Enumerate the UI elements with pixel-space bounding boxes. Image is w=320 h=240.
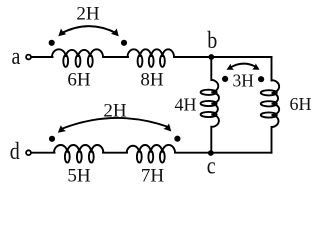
svg-text:6H: 6H — [67, 70, 91, 91]
svg-text:2H: 2H — [103, 101, 127, 122]
svg-text:6H: 6H — [290, 94, 312, 114]
inductor L2 8H (loops) — [138, 55, 165, 67]
terminal d (open circle) — [26, 150, 31, 155]
inductor L1 6H (humps) — [52, 49, 103, 57]
terminal a (open circle) — [26, 55, 31, 60]
wire right branch top — [271, 57, 273, 81]
dot marker L2 — [121, 40, 127, 46]
inductor L1 6H (loops) — [63, 55, 92, 67]
inductor L4 5H (humps) — [54, 145, 103, 153]
wire node b down — [210, 57, 212, 80]
arrowhead 2H bottom right — [163, 124, 171, 132]
svg-text:b: b — [207, 26, 217, 53]
inductor L3 4H vertical (loops) — [201, 90, 217, 117]
inductor L3 4H vertical (humps) — [211, 80, 219, 127]
node label d — [10, 137, 20, 164]
svg-text:2H: 2H — [76, 4, 100, 25]
node label a — [12, 42, 21, 69]
mutual coupling arrow 2H bottom (arc) — [60, 118, 170, 130]
svg-text:8H: 8H — [140, 70, 164, 91]
dot marker L3 — [222, 76, 228, 82]
arrowhead 2H top left — [58, 29, 66, 37]
inductor L5 6H vertical (loops) — [261, 90, 277, 117]
svg-text:3H: 3H — [233, 71, 255, 91]
wire d to L4 — [32, 152, 55, 154]
dot marker L1 — [49, 40, 55, 46]
wire right branch bottom — [271, 127, 273, 153]
wire L3 to node c — [210, 127, 212, 153]
mutual coupling arrow 3H (arc) — [230, 64, 258, 68]
node b junction dot — [208, 54, 214, 60]
bottom rail right (c to corner) — [211, 152, 271, 154]
arrowhead 3H left — [227, 64, 234, 70]
svg-text:4H: 4H — [175, 95, 197, 115]
dot marker L4 — [49, 136, 55, 142]
arrowhead 2H bottom left — [58, 125, 66, 133]
wire a to L1 — [32, 56, 53, 58]
inductor L4 5H (loops) — [65, 151, 94, 163]
svg-text:7H: 7H — [141, 166, 165, 187]
svg-text:a: a — [12, 42, 21, 69]
node label b — [207, 26, 217, 53]
arrowhead 3H right — [252, 64, 259, 70]
svg-text:d: d — [10, 137, 20, 164]
inductor L6 7H (loops) — [137, 151, 165, 163]
inductor L6 7H (humps) — [127, 145, 175, 153]
wire L4 to L6 — [103, 152, 127, 154]
inductor L2 8H (humps) — [128, 49, 175, 57]
dot marker L5 — [258, 76, 264, 82]
wire node b to right corner — [211, 56, 271, 58]
svg-text:5H: 5H — [67, 166, 91, 187]
inductor L5 6H vertical (humps) — [272, 80, 280, 127]
node c junction dot — [208, 150, 214, 156]
arrowhead 2H top right — [111, 28, 119, 36]
wire L1 to L2 — [103, 56, 128, 58]
svg-text:c: c — [207, 151, 216, 178]
wire L2 to node b — [174, 56, 211, 58]
node label c — [207, 151, 216, 178]
wire L6 to node c — [175, 152, 211, 154]
dot marker L6 — [174, 136, 180, 142]
mutual coupling arrow 2H top (arc) — [60, 26, 117, 34]
